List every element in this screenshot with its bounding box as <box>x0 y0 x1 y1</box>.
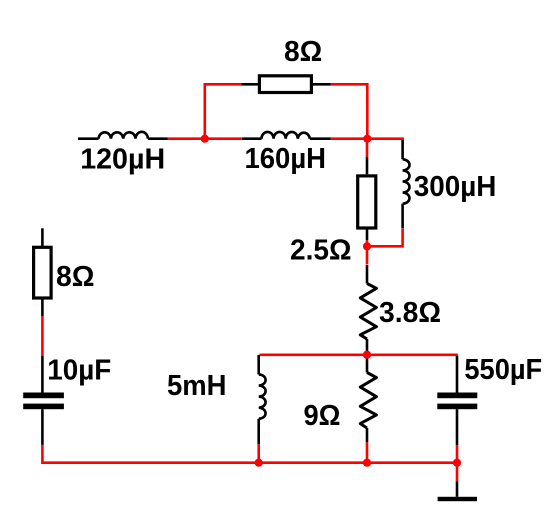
inductor 120µH <box>99 132 148 139</box>
wire 8Ω top resistor left lead (black) <box>241 83 259 86</box>
wire 9Ω bottom (red) <box>366 442 369 463</box>
wire 2.5Ω top lead (black) <box>366 157 369 174</box>
wire ground stem (black) <box>456 481 459 496</box>
node D (3.8Ω/mid rail junction) <box>363 351 371 359</box>
wire top-right bypass (red) <box>331 84 368 138</box>
inductor 300µH <box>403 159 410 203</box>
svg-text:120µH: 120µH <box>80 144 165 176</box>
wire top-left bypass (red) <box>205 84 242 138</box>
wire node B to 2.5Ω (red) <box>366 139 369 157</box>
node F (9Ω/bottom rail junction) <box>363 459 371 467</box>
wire 120µH left lead (black) <box>78 137 99 140</box>
wire to 300µH top (red) <box>367 137 404 140</box>
wire bottom rail (red) <box>259 461 457 464</box>
inductor 5mH <box>259 374 266 418</box>
wire from 300µH bottom (red) <box>366 229 403 246</box>
node G (550µF/ground junction) <box>453 459 461 467</box>
svg-text:10µF: 10µF <box>47 354 111 386</box>
wire 2.5Ω bottom lead (black) <box>366 228 369 240</box>
svg-text:160µH: 160µH <box>245 143 327 175</box>
wire bottom-left corner (red) <box>42 445 259 463</box>
svg-text:300µH: 300µH <box>414 171 497 203</box>
wire 8Ω left bottom lead (black) <box>41 299 44 317</box>
wire node C to 3.8Ω (red) <box>366 246 369 264</box>
resistor 8Ω top (box) <box>259 76 311 93</box>
wire 160µH right lead (black) <box>310 137 331 140</box>
svg-text:9Ω: 9Ω <box>304 400 341 432</box>
node C (2.5Ω/300µH junction) <box>363 242 371 250</box>
svg-text:3.8Ω: 3.8Ω <box>379 297 441 329</box>
svg-text:8Ω: 8Ω <box>284 36 322 68</box>
wire 8Ω left top stub (black) <box>41 228 44 247</box>
node B (160µH/bypass junction) <box>363 135 371 143</box>
wire 120µH right lead (black) <box>148 137 168 140</box>
node E (5mH/bottom rail junction) <box>255 459 263 467</box>
capacitor 550µF <box>437 393 477 410</box>
svg-text:2.5Ω: 2.5Ω <box>290 234 352 266</box>
svg-text:550µF: 550µF <box>464 354 542 386</box>
wire main row left (red) <box>168 137 242 140</box>
wire 550µF bottom (red) <box>456 445 459 463</box>
ground <box>438 497 477 501</box>
wire 2.5Ω to node C (red) <box>366 240 369 246</box>
wire to ground (red) <box>456 463 459 482</box>
node A (120µH/160µH junction) <box>201 135 209 143</box>
wire 3.8Ω top lead (black) <box>366 265 369 284</box>
resistor 8Ω left (box) <box>34 247 52 298</box>
wire 8Ω top resistor right lead (black) <box>312 83 331 86</box>
wire 550µF top lead (black) <box>456 356 459 393</box>
wire 10µF top lead (black) <box>41 356 44 393</box>
wire 5mH top lead (black) <box>257 355 260 375</box>
wire 300µH bottom lead (black) <box>401 204 404 229</box>
wire 9Ω top lead (black) <box>366 356 369 373</box>
wire 160µH left lead (black) <box>242 137 262 140</box>
inductor 160µH <box>262 132 310 139</box>
wire 300µH top lead (black) <box>401 140 404 159</box>
svg-text:5mH: 5mH <box>167 370 227 402</box>
svg-text:8Ω: 8Ω <box>56 261 95 293</box>
capacitor 10µF <box>23 393 64 410</box>
resistor 3.8Ω (zigzag) <box>360 284 376 340</box>
resistor 2.5Ω (box) <box>358 176 376 228</box>
wire 10µF bottom lead (black) <box>41 409 44 445</box>
wire 9Ω bottom lead (black) <box>366 428 369 442</box>
wire 3.8Ω bottom lead (black) <box>366 339 369 355</box>
resistor 9Ω (zigzag) <box>360 373 376 429</box>
wire 550µF bottom lead (black) <box>456 409 459 445</box>
wire mid rail (red) <box>260 353 458 356</box>
wire left branch mid (red) <box>41 316 44 356</box>
wire 5mH bottom (red) <box>257 444 260 463</box>
wire main row right (red) <box>331 137 368 140</box>
wire 5mH bottom lead (black) <box>257 419 260 444</box>
